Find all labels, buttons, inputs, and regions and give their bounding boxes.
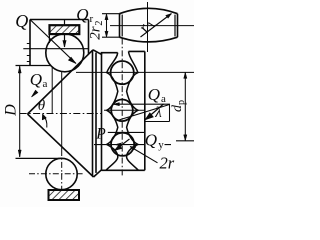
ball N1 (111, 61, 134, 84)
angle theta arc arrow (42, 114, 47, 128)
ball N2 horizontal centerline (104, 109, 145, 111)
hatched block left lip (48, 34, 50, 43)
2r2 bottom extension line (102, 36, 121, 38)
dimension dp line with arrows (184, 72, 187, 140)
barrel roller bottom arc (120, 37, 178, 42)
svg-text:2: 2 (94, 20, 105, 25)
2r2 top extension line (102, 13, 121, 15)
screw block top edge (30, 19, 89, 21)
radius arrow r1 (141, 14, 172, 38)
ball N2 (111, 100, 133, 122)
balls vertical dash-dot centerline (121, 39, 123, 177)
dimension D line with arrows (18, 66, 21, 157)
svg-text:λ: λ (154, 105, 162, 121)
force arrow Q (normal force diagonal) (30, 20, 76, 64)
force arrow Qr (radial, vertical) (63, 20, 66, 48)
bottom ball B2 (46, 158, 77, 189)
label 2r2 rotated (88, 20, 106, 39)
label dp rotated (170, 100, 187, 112)
barrel vertical centerline (147, 2, 149, 52)
force line Qy (through ball N3 center) (94, 143, 171, 146)
svg-text:2r: 2r (160, 154, 175, 173)
lambda triangle vertical (169, 104, 171, 121)
nut raceway left profile (106, 53, 118, 171)
ball N3 (111, 133, 134, 156)
svg-text:θ: θ (38, 98, 46, 114)
svg-text:2r: 2r (88, 26, 104, 40)
nut top right edge (129, 50, 145, 52)
lambda triangle bottom (145, 121, 170, 123)
dimension D top extension line (16, 65, 52, 67)
apex horizontal dash-dot centerline (20, 113, 101, 115)
ball B1 (upper left ball) (46, 34, 84, 72)
svg-text:Q: Q (148, 85, 160, 104)
screw right edge vertical 1 (92, 50, 94, 176)
hatched block (nut land) on top of ball (50, 25, 80, 34)
screw right edge vertical 2 (95, 53, 97, 173)
screw bottom V chamfer (94, 170, 102, 177)
nut bottom edge (102, 169, 145, 171)
svg-text:D: D (3, 104, 20, 117)
force line P (horizontal above ball N3) (108, 131, 145, 133)
screw block right edge (88, 20, 90, 55)
force arrow Qa along flank (left) (32, 90, 38, 97)
barrel horizontal centerline (110, 25, 194, 27)
barrel roller top arc (120, 8, 178, 13)
nut top left edge (102, 53, 118, 55)
svg-text:a: a (161, 93, 166, 105)
nut left edge (101, 53, 103, 171)
vertical construction line V2 (ball centerline) (61, 71, 63, 150)
barrel roller left face (119, 14, 121, 38)
tick marks on block left edge (27, 44, 30, 62)
upper thread flank (from apex to crest) (28, 50, 94, 114)
leader line 2r (130, 147, 158, 163)
bottom hatched block (support) (49, 190, 80, 200)
svg-text:a: a (43, 78, 48, 90)
dimension 2r2 line with arrows (105, 14, 108, 38)
dimension D bottom extension line (16, 157, 63, 159)
barrel roller right face (177, 14, 179, 38)
label r1 rotated (136, 16, 159, 37)
Qa reference line (long horizontal) (76, 71, 194, 73)
svg-text:p: p (176, 100, 187, 105)
svg-text:Q: Q (15, 11, 28, 31)
svg-text:r: r (90, 13, 94, 25)
svg-text:P: P (95, 126, 106, 143)
svg-text:Q: Q (76, 5, 88, 24)
bottom ball vertical dash-dot centerline (61, 150, 63, 191)
lower thread flank (28, 114, 94, 177)
svg-text:y: y (158, 139, 164, 151)
force arrow in ball N2 (left arrow line) (113, 103, 170, 106)
screw crest right chamfer (93, 50, 102, 55)
diagonal force arrow in ball N3 (115, 139, 130, 151)
svg-text:Q: Q (30, 70, 42, 89)
helix force arrow (lambda arrow) (145, 104, 163, 120)
svg-text:Q: Q (145, 131, 157, 150)
helix diagonal line (117, 105, 170, 121)
nut right edge (144, 51, 146, 170)
screw block left edge (29, 20, 31, 66)
vertical construction line V1 (51, 67, 53, 114)
dimension dp bottom extension (176, 140, 194, 142)
bottom ball horizontal dash-dot centerline (29, 173, 84, 175)
construction line through contact level (23, 48, 88, 50)
nut raceway right profile (127, 51, 139, 170)
